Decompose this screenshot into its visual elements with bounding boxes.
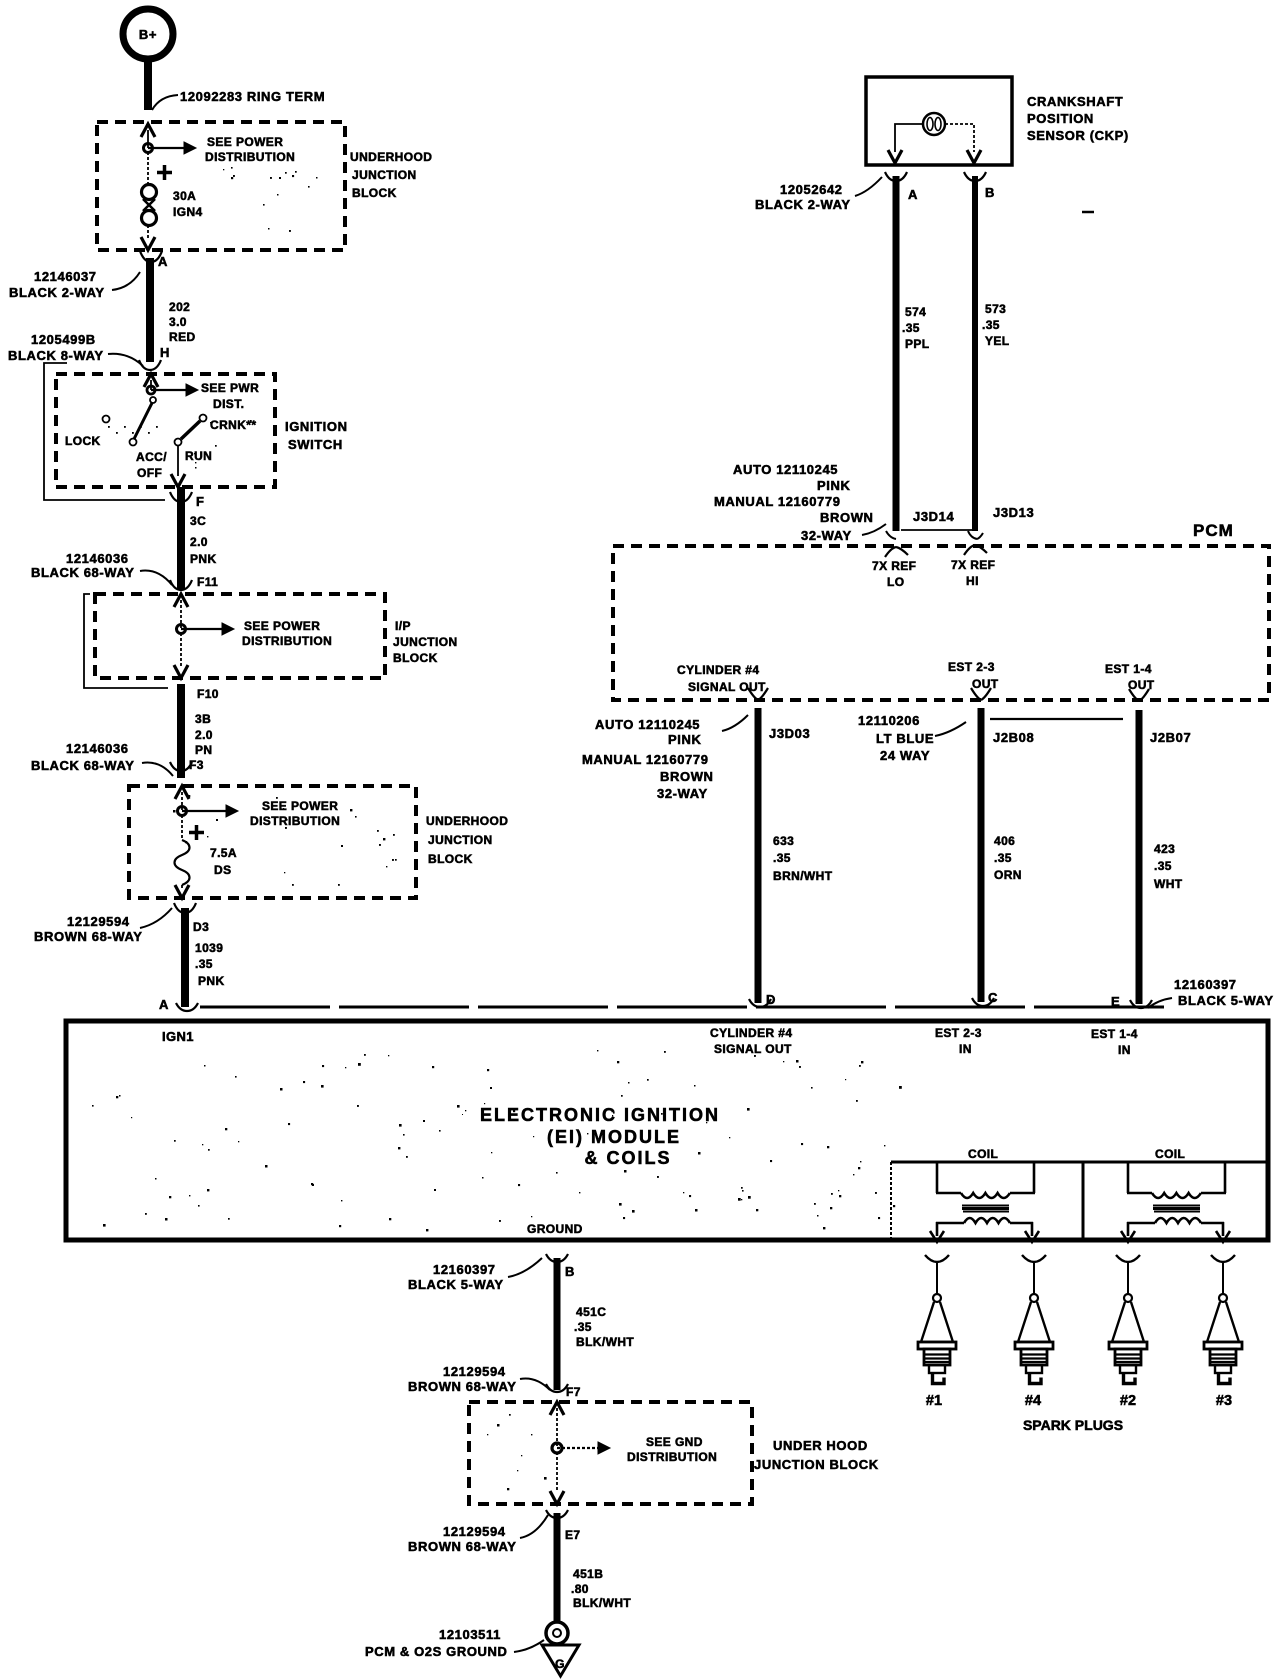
svg-text:BLACK 2-WAY: BLACK 2-WAY (755, 197, 851, 212)
svg-text:12146036: 12146036 (66, 741, 129, 756)
svg-text:#3: #3 (1216, 1393, 1232, 1409)
svg-text:12160397: 12160397 (1174, 977, 1237, 992)
svg-text:SEE POWER: SEE POWER (207, 135, 283, 149)
svg-text:B: B (565, 1264, 575, 1279)
svg-text:JUNCTION: JUNCTION (393, 635, 458, 649)
svg-text:SWITCH: SWITCH (288, 437, 343, 452)
svg-text:BROWN: BROWN (660, 769, 714, 784)
svg-text:574: 574 (905, 305, 926, 319)
svg-text:IGN1: IGN1 (162, 1029, 194, 1044)
svg-text:.35: .35 (902, 321, 920, 335)
svg-text:SIGNAL OUT: SIGNAL OUT (688, 680, 766, 694)
svg-text:DISTRIBUTION: DISTRIBUTION (627, 1450, 717, 1464)
svg-text:A: A (158, 254, 168, 269)
svg-text:JUNCTION BLOCK: JUNCTION BLOCK (754, 1457, 879, 1472)
svg-text:BROWN: BROWN (820, 510, 874, 525)
svg-text:.80: .80 (571, 1582, 589, 1596)
svg-text:.35: .35 (1154, 859, 1172, 873)
svg-text:(EI) MODULE: (EI) MODULE (547, 1127, 681, 1147)
svg-text:BLACK 68-WAY: BLACK 68-WAY (31, 565, 135, 580)
svg-text:E7: E7 (565, 1528, 580, 1542)
svg-text:A: A (908, 187, 918, 202)
svg-text:ACC/: ACC/ (136, 450, 167, 464)
svg-text:LT BLUE: LT BLUE (876, 731, 934, 746)
svg-text:CRANKSHAFT: CRANKSHAFT (1027, 94, 1123, 109)
svg-text:H: H (160, 345, 170, 360)
svg-text:LO: LO (887, 575, 904, 589)
svg-text:AUTO 12110245: AUTO 12110245 (595, 717, 700, 732)
svg-text:A: A (159, 997, 169, 1012)
svg-text:.35: .35 (574, 1320, 592, 1334)
svg-text:HI: HI (966, 574, 979, 588)
svg-text:3C: 3C (190, 514, 206, 528)
svg-text:BLACK 68-WAY: BLACK 68-WAY (31, 758, 135, 773)
svg-text:12103511: 12103511 (439, 1627, 501, 1642)
svg-text:.35: .35 (982, 318, 1000, 332)
svg-text:YEL: YEL (985, 334, 1010, 348)
svg-text:BRN/WHT: BRN/WHT (773, 869, 833, 883)
svg-text:D3: D3 (193, 920, 209, 934)
svg-text:BLK/WHT: BLK/WHT (576, 1335, 634, 1349)
svg-text:24 WAY: 24 WAY (880, 748, 930, 763)
svg-text:7X REF: 7X REF (951, 558, 995, 572)
svg-text:UNDER HOOD: UNDER HOOD (773, 1438, 868, 1453)
svg-text:OUT: OUT (1128, 678, 1155, 692)
svg-text:BROWN 68-WAY: BROWN 68-WAY (408, 1539, 517, 1554)
svg-text:EST 2-3: EST 2-3 (948, 660, 995, 674)
svg-text:.35: .35 (994, 851, 1012, 865)
svg-text:12052642: 12052642 (780, 182, 843, 197)
svg-text:30A: 30A (173, 189, 196, 203)
svg-text:CRNK**: CRNK** (210, 418, 256, 432)
svg-text:12129594: 12129594 (67, 914, 130, 929)
svg-text:SEE PWR: SEE PWR (201, 381, 259, 395)
svg-text:CYLINDER #4: CYLINDER #4 (677, 663, 759, 677)
svg-text:BLOCK: BLOCK (428, 852, 473, 866)
svg-text:POSITION: POSITION (1027, 111, 1094, 126)
svg-text:7X REF: 7X REF (872, 559, 916, 573)
svg-text:& COILS: & COILS (584, 1148, 671, 1168)
svg-text:.35: .35 (773, 851, 791, 865)
svg-text:EST 2-3: EST 2-3 (935, 1026, 982, 1040)
svg-text:BLACK 5-WAY: BLACK 5-WAY (408, 1277, 504, 1292)
svg-text:SPARK PLUGS: SPARK PLUGS (1023, 1417, 1123, 1433)
svg-text:202: 202 (169, 300, 190, 314)
svg-text:2.0: 2.0 (195, 728, 213, 742)
svg-text:AUTO 12110245: AUTO 12110245 (733, 462, 838, 477)
svg-text:DS: DS (214, 863, 231, 877)
svg-text:SENSOR (CKP): SENSOR (CKP) (1027, 128, 1129, 143)
svg-text:12092283 RING TERM: 12092283 RING TERM (180, 89, 325, 104)
svg-text:F11: F11 (197, 575, 218, 589)
svg-text:451B: 451B (573, 1567, 603, 1581)
svg-text:.35: .35 (195, 957, 213, 971)
svg-text:32-WAY: 32-WAY (801, 528, 852, 543)
svg-text:1205499B: 1205499B (31, 332, 96, 347)
svg-text:IGNITION: IGNITION (285, 419, 348, 434)
svg-text:BLOCK: BLOCK (393, 651, 438, 665)
svg-text:IGN4: IGN4 (173, 205, 203, 219)
svg-text:DISTRIBUTION: DISTRIBUTION (250, 814, 340, 828)
svg-text:3B: 3B (195, 712, 211, 726)
svg-text:12110206: 12110206 (858, 713, 920, 728)
svg-text:IN: IN (1118, 1043, 1131, 1057)
svg-text:7.5A: 7.5A (210, 846, 237, 860)
svg-text:COIL: COIL (1155, 1147, 1185, 1161)
svg-text:IN: IN (959, 1042, 972, 1056)
svg-text:PCM: PCM (1193, 521, 1234, 540)
svg-text:12146036: 12146036 (66, 551, 129, 566)
svg-text:OFF: OFF (137, 466, 162, 480)
svg-text:GROUND: GROUND (527, 1222, 583, 1236)
svg-text:F10: F10 (197, 687, 219, 701)
svg-text:SEE POWER: SEE POWER (262, 799, 338, 813)
svg-text:B+: B+ (139, 27, 157, 42)
svg-text:EST 1-4: EST 1-4 (1105, 662, 1152, 676)
svg-text:2.0: 2.0 (190, 535, 208, 549)
svg-text:J2B07: J2B07 (1150, 730, 1191, 745)
svg-text:SEE GND: SEE GND (646, 1435, 703, 1449)
svg-text:F: F (196, 494, 205, 509)
svg-text:12129594: 12129594 (443, 1364, 506, 1379)
svg-text:PINK: PINK (817, 478, 850, 493)
svg-text:BLOCK: BLOCK (352, 186, 397, 200)
svg-text:PPL: PPL (905, 337, 930, 351)
svg-text:COIL: COIL (968, 1147, 998, 1161)
svg-text:ORN: ORN (994, 868, 1022, 882)
svg-text:#4: #4 (1025, 1393, 1041, 1409)
svg-text:32-WAY: 32-WAY (657, 786, 708, 801)
svg-text:MANUAL 12160779: MANUAL 12160779 (582, 752, 709, 767)
svg-text:B: B (985, 185, 995, 200)
svg-text:BLK/WHT: BLK/WHT (573, 1596, 631, 1610)
svg-text:PINK: PINK (668, 732, 701, 747)
svg-text:J2B08: J2B08 (993, 730, 1034, 745)
svg-text:DIST.: DIST. (213, 397, 244, 411)
svg-text:OUT: OUT (972, 677, 999, 691)
svg-text:PN: PN (195, 743, 212, 757)
svg-text:3.0: 3.0 (169, 315, 187, 329)
svg-text:PNK: PNK (190, 552, 217, 566)
svg-text:RUN: RUN (185, 449, 212, 463)
svg-text:J3D03: J3D03 (769, 726, 810, 741)
svg-text:J3D13: J3D13 (993, 505, 1034, 520)
svg-text:SEE POWER: SEE POWER (244, 619, 320, 633)
svg-text:PNK: PNK (198, 974, 225, 988)
svg-text:BROWN 68-WAY: BROWN 68-WAY (408, 1379, 517, 1394)
svg-text:12160397: 12160397 (433, 1262, 496, 1277)
svg-text:JUNCTION: JUNCTION (428, 833, 493, 847)
svg-text:12129594: 12129594 (443, 1524, 506, 1539)
svg-text:CYLINDER #4: CYLINDER #4 (710, 1026, 792, 1040)
svg-text:PCM & O2S GROUND: PCM & O2S GROUND (365, 1644, 508, 1659)
svg-text:#1: #1 (926, 1393, 942, 1409)
svg-text:451C: 451C (576, 1305, 606, 1319)
svg-text:BROWN 68-WAY: BROWN 68-WAY (34, 929, 143, 944)
svg-text:12146037: 12146037 (34, 269, 97, 284)
svg-text:SIGNAL OUT: SIGNAL OUT (714, 1042, 792, 1056)
svg-text:423: 423 (1154, 842, 1175, 856)
svg-text:EST 1-4: EST 1-4 (1091, 1027, 1138, 1041)
svg-text:DISTRIBUTION: DISTRIBUTION (242, 634, 332, 648)
svg-text:BLACK 5-WAY: BLACK 5-WAY (1178, 993, 1274, 1008)
svg-text:G: G (555, 1657, 565, 1671)
svg-text:406: 406 (994, 834, 1015, 848)
svg-text:1039: 1039 (195, 941, 223, 955)
svg-text:DISTRIBUTION: DISTRIBUTION (205, 150, 295, 164)
svg-text:ELECTRONIC IGNITION: ELECTRONIC IGNITION (480, 1105, 720, 1125)
svg-text:633: 633 (773, 834, 794, 848)
svg-text:F7: F7 (566, 1385, 581, 1399)
svg-text:J3D14: J3D14 (913, 509, 954, 524)
svg-text:BLACK 8-WAY: BLACK 8-WAY (8, 348, 104, 363)
svg-text:RED: RED (169, 330, 196, 344)
svg-text:#2: #2 (1120, 1393, 1136, 1409)
svg-text:I/P: I/P (395, 619, 411, 633)
svg-text:573: 573 (985, 302, 1006, 316)
svg-text:MANUAL 12160779: MANUAL 12160779 (714, 494, 841, 509)
svg-text:BLACK 2-WAY: BLACK 2-WAY (9, 285, 105, 300)
svg-text:UNDERHOOD: UNDERHOOD (350, 150, 432, 164)
svg-text:WHT: WHT (1154, 877, 1183, 891)
svg-text:LOCK: LOCK (65, 434, 101, 448)
svg-text:UNDERHOOD: UNDERHOOD (426, 814, 508, 828)
svg-text:JUNCTION: JUNCTION (352, 168, 417, 182)
